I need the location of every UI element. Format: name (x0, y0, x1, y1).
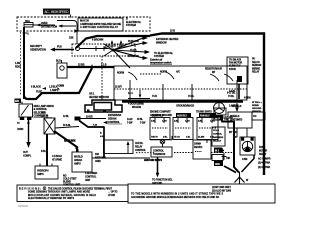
arrow up 16 black (105, 40, 116, 48)
svg-text:6 BLACK: 6 BLACK (31, 86, 41, 89)
svg-text:15B: 15B (69, 37, 74, 40)
footnote left box (17, 185, 128, 202)
svg-text:MFI: MFI (41, 113, 45, 115)
switch contact 2 (160, 71, 180, 80)
connector column box (212, 127, 225, 146)
svg-text:FAN RLY: FAN RLY (200, 114, 210, 117)
svg-text:AC - HIGH SPEED: AC - HIGH SPEED (45, 10, 70, 14)
wire thick blower run (67, 66, 114, 68)
svg-text:UNIT: UNIT (85, 179, 91, 182)
connector 4RD black (214, 153, 236, 173)
label PU sensor stack (252, 59, 262, 74)
relay row box R1 (150, 116, 170, 140)
node HD (15, 99, 22, 104)
dashed rail inside box (114, 88, 247, 90)
label right of B2 (95, 153, 107, 163)
svg-text:SELECT: SELECT (213, 141, 222, 143)
wire labels inside box (115, 84, 235, 100)
arrow exterior heated window 2 (128, 40, 148, 45)
blower box U2 (56, 60, 67, 79)
connector 1BRN box (212, 155, 223, 161)
svg-text:FUS: FUS (57, 46, 62, 49)
dashed link inside box (140, 73, 162, 75)
svg-text:21-BM: 21-BM (198, 137, 204, 139)
wire thick L to ground (222, 115, 239, 173)
svg-text:7-2W: 7-2W (140, 123, 146, 125)
svg-text:I BRN: I BRN (17, 128, 23, 131)
svg-text:1 AMPL: 1 AMPL (50, 89, 59, 92)
svg-text:SENSOR: SENSOR (252, 65, 262, 67)
node D label: to electrical system (126, 17, 142, 28)
svg-text:A 4 BOLD: A 4 BOLD (52, 155, 62, 158)
pin labels 4A 44 (17, 122, 30, 125)
relay coil (76, 47, 109, 51)
node A tick (23, 33, 30, 36)
labels 1.5 blk / 4 brn (242, 158, 270, 169)
box X6 (252, 112, 265, 120)
svg-text:(2) 4-0 PMA: (2) 4-0 PMA (258, 166, 270, 169)
svg-text:75 CO: 75 CO (174, 137, 180, 139)
svg-text:ELECTRONICALLY REMOVED BY UNIT: ELECTRONICALLY REMOVED BY UNITS (28, 197, 74, 200)
svg-text:MOTOR: MOTOR (259, 150, 268, 152)
wire 30 black right (55, 121, 105, 159)
svg-text:15 B: 15 B (170, 30, 175, 33)
wire V join below motor (220, 148, 254, 172)
label security generation (30, 45, 46, 52)
svg-text:6 BROWN: 6 BROWN (92, 39, 104, 42)
wire from fuse down (69, 31, 77, 44)
svg-text:RD/S: RD/S (15, 66, 21, 69)
connector M black (214, 148, 222, 153)
svg-text:7-1W: 7-1W (127, 123, 133, 125)
svg-text:1.5 BLACK: 1.5 BLACK (64, 140, 76, 143)
svg-text:15 GA: 15 GA (130, 49, 137, 52)
wire X2 to ground (227, 84, 263, 113)
dashed parallel run (20, 32, 22, 96)
splice circle X (150, 136, 172, 147)
svg-text:30 BLACK: 30 BLACK (128, 35, 139, 38)
motor box X4 (240, 137, 255, 155)
svg-text:GRID: GRID (95, 160, 101, 163)
svg-text:N BOX: N BOX (229, 69, 236, 71)
svg-text:15 BB: 15 BB (78, 64, 85, 67)
svg-text:1-BO: 1-BO (162, 121, 167, 123)
label ground (176, 105, 195, 108)
svg-text:W TRLU +: W TRLU + (252, 102, 263, 104)
svg-text:30 6-BL: 30 6-BL (63, 125, 71, 127)
small box under ground (213, 108, 229, 121)
resistor block (205, 68, 237, 101)
svg-text:RECIRC: RECIRC (194, 147, 203, 149)
reinforced harness label (103, 114, 146, 125)
svg-text:WHEELS: WHEELS (230, 116, 240, 118)
svg-text:SYSTEM: SYSTEM (126, 24, 136, 27)
svg-text:1-BO: 1-BO (210, 121, 215, 123)
svg-text:CONTROL: CONTROL (108, 121, 120, 124)
svg-text:AUX BL: AUX BL (135, 142, 144, 145)
svg-text:1 B: 1 B (75, 148, 79, 150)
dashed fuse box F1 (17, 17, 150, 31)
svg-text:WIRING: WIRING (252, 68, 260, 70)
svg-text:NORM: NORM (117, 72, 124, 75)
svg-text:2-2 BL: 2-2 BL (229, 91, 236, 93)
label heated window (89, 93, 110, 99)
label cold start control unit (63, 175, 81, 187)
label side lamp switch (34, 105, 55, 118)
wire main bus top (150, 34, 264, 176)
wire thick diagonal fuse to bus (76, 36, 150, 48)
relay row box R2 (173, 113, 193, 140)
wire down arrow from switch (17, 120, 32, 157)
svg-text:1 BL: 1 BL (186, 137, 191, 139)
lamp switch box S2 (19, 102, 33, 121)
arrow to temperature switch (128, 55, 148, 60)
wire bottom rail (92, 157, 150, 159)
arrow exterior heated window 1 (128, 35, 179, 44)
svg-text:(1) ALSO MY 1990: (1) ALSO MY 1990 (212, 189, 232, 192)
aux blower relay box (104, 140, 147, 154)
svg-text:4 BRN: 4 BRN (244, 97, 251, 100)
svg-text:14-21: 14-21 (127, 118, 133, 121)
svg-text:FR/BL: FR/BL (259, 147, 266, 149)
svg-text:4RD: 4RD (215, 163, 220, 166)
svg-text:FUSE: FUSE (36, 91, 43, 94)
svg-text:4 BM: 4 BM (242, 158, 247, 161)
wire hot feed arrow left (53, 49, 74, 51)
svg-text:2 BL: 2 BL (163, 137, 168, 139)
svg-text:SPATS/MTD: SPATS/MTD (230, 118, 243, 121)
tick T on run (78, 64, 107, 68)
svg-text:AMPS: AMPS (74, 163, 81, 166)
svg-text:COMPL: COMPL (23, 154, 32, 157)
svg-text:10 BL: 10 BL (63, 116, 70, 118)
svg-text:AUX RLY: AUX RLY (177, 114, 187, 117)
svg-text:CONTROL: CONTROL (135, 150, 146, 152)
label 30 B on bus (92, 30, 175, 42)
svg-text:40 BL: 40 BL (137, 118, 144, 121)
svg-text:GROUND SPATS: GROUND SPATS (144, 159, 162, 162)
labels near fuse run (31, 86, 59, 94)
dashed link left (136, 152, 154, 154)
svg-text:MY: MY (229, 132, 233, 134)
svg-text:WINDOW: WINDOW (156, 41, 167, 44)
control transducer box (151, 147, 172, 157)
wire stub R3 down (206, 140, 208, 144)
aux blower box B2 (72, 148, 92, 173)
ground spats label (144, 159, 162, 162)
arrow up 7.5 black (117, 40, 126, 48)
svg-text:74 B: 74 B (152, 95, 157, 98)
dashed vertical mid (101, 56, 103, 100)
svg-text:AT SPINE: AT SPINE (52, 158, 62, 161)
fuse symbol 30A (24, 19, 33, 27)
wire loop in fuse box (33, 21, 78, 33)
chassis ground symbol (235, 172, 250, 184)
connector X box (41, 113, 55, 135)
svg-text:74 BL: 74 BL (188, 95, 195, 98)
splice S1 fanout (104, 38, 145, 68)
footnote right box (128, 184, 275, 203)
shadow dash bottom left (18, 205, 28, 207)
label instrument cluster (63, 116, 106, 121)
svg-text:2-BL: 2-BL (174, 121, 179, 123)
label motor (258, 147, 271, 161)
svg-text:HEATED WINDOW: HEATED WINDOW (89, 96, 110, 99)
svg-text:AT HM: AT HM (108, 194, 115, 197)
switch contact 1 (117, 72, 137, 101)
svg-text:TRANSDCR: TRANSDCR (153, 153, 166, 156)
relay K1 dashed box (72, 44, 135, 56)
svg-text:CONTROL: CONTROL (153, 151, 164, 153)
svg-text:WAGON: WAGON (132, 106, 141, 109)
label 16-4 tick (128, 90, 150, 109)
svg-text:M 2: M 2 (215, 150, 220, 153)
svg-text:AC COMPR: AC COMPR (258, 158, 271, 161)
svg-text:30 BLACK: 30 BLACK (128, 40, 139, 43)
svg-text:AMPS: AMPS (37, 173, 44, 176)
MB star emblem on ground (214, 103, 225, 114)
ground bus thick (122, 100, 243, 102)
label 1.5M RD (15, 62, 21, 69)
labels under ground (150, 111, 233, 120)
svg-text:PU: PU (252, 59, 255, 61)
relay row box R3 (197, 113, 218, 140)
arrows mid right (233, 130, 238, 138)
temperature switch box U3 (114, 66, 247, 100)
svg-text:GENERATION: GENERATION (30, 49, 46, 52)
svg-text:A: A (27, 33, 29, 36)
svg-text:ACCORDING GROUND MODULE IN MES: ACCORDING GROUND MODULE IN MESSAGES METH… (131, 196, 219, 199)
svg-text:GROUND/MASS: GROUND/MASS (176, 105, 195, 108)
svg-text:2-BL: 2-BL (151, 121, 156, 123)
svg-text:74B 78: 74B 78 (151, 136, 158, 139)
header bar (43, 9, 70, 15)
svg-text:BLO: BLO (56, 60, 61, 63)
svg-text:2 BL: 2 BL (210, 137, 215, 139)
svg-text:FAN MOTOR: FAN MOTOR (229, 62, 242, 65)
svg-text:(2) 4-1 PMA: (2) 4-1 PMA (258, 162, 270, 165)
svg-text:DR/MD: DR/MD (252, 105, 259, 107)
svg-text:100MA: 100MA (194, 143, 201, 146)
svg-text:AIR: AIR (41, 115, 45, 118)
box X3 wheel spats (228, 106, 252, 128)
svg-text:COMM: COMM (57, 86, 64, 88)
svg-text:DELCO: DELCO (252, 62, 260, 64)
wire thick down to amp box (46, 134, 48, 166)
svg-text:RELAY: RELAY (259, 153, 267, 156)
svg-text:KLIMA RLY: KLIMA RLY (229, 65, 241, 68)
svg-text:RELAY: RELAY (252, 71, 260, 74)
svg-text:A/C: A/C (176, 71, 180, 74)
blower control unit label (85, 172, 97, 182)
small box X2 upper right (227, 57, 248, 84)
svg-text:B BL: B BL (41, 151, 47, 153)
svg-text:← UP TO: ← UP TO (108, 192, 118, 194)
svg-text:RELAY: RELAY (135, 146, 143, 149)
svg-text:TH SW AUX: TH SW AUX (229, 59, 242, 62)
arrow to electrical system (130, 49, 173, 58)
dashed link to right (174, 152, 233, 154)
recirculation box (193, 140, 211, 159)
svg-text:A SWITCHED IGNITION RELAY: A SWITCHED IGNITION RELAY (80, 26, 118, 29)
svg-text:2-BL: 2-BL (198, 121, 203, 123)
svg-text:74R: 74R (226, 157, 230, 160)
svg-text:30 BLACK: 30 BLACK (128, 55, 139, 58)
inner label box (78, 18, 123, 31)
wires X3 down (229, 128, 247, 137)
node B tick (70, 15, 72, 18)
svg-text:74 BL: 74 BL (228, 95, 235, 98)
amplifier box B1 (35, 164, 58, 180)
svg-text:DISTRIBUTION: DISTRIBUTION (41, 25, 57, 28)
svg-text:WHEELS: WHEELS (232, 106, 242, 108)
wire vertical main left (23, 27, 25, 99)
svg-text:1-BO: 1-BO (185, 121, 190, 123)
rear window element (hat shape) (85, 100, 122, 112)
svg-text:GROUND: GROUND (252, 108, 262, 110)
wire thick diagonal 1.5 black (54, 131, 77, 152)
svg-text:HD: HD (15, 99, 19, 103)
wire down to function selector (157, 157, 159, 173)
svg-text:CO: CO (253, 116, 257, 118)
wire thick diagonal down left (24, 68, 92, 99)
label commpl (57, 86, 64, 91)
relay contact marks (96, 46, 104, 51)
label exterior air temperature switch (150, 58, 172, 64)
svg-text:21 B/Y: 21 B/Y (115, 86, 122, 89)
svg-text:16-4: 16-4 (128, 92, 133, 95)
